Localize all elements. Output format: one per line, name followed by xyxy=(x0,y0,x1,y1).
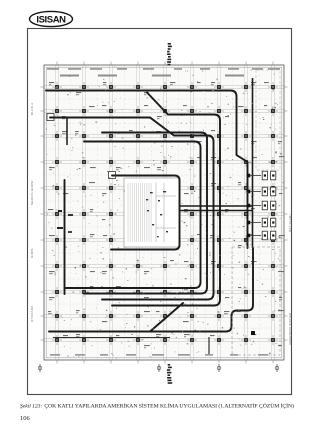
svg-text:AMERIKAN SISTEM: AMERIKAN SISTEM xyxy=(288,313,292,345)
svg-text:106: 106 xyxy=(20,415,31,422)
svg-text:BLOK A: BLOK A xyxy=(30,103,34,115)
svg-text:GIRIS: GIRIS xyxy=(30,248,34,258)
svg-text:ISISAN: ISISAN xyxy=(36,14,66,25)
svg-text:Şekil 123:ÇOK KATLI YAPILARDA: Şekil 123:ÇOK KATLI YAPILARDA AMERİKAN S… xyxy=(20,403,294,410)
svg-text:SERVIS GIRISI: SERVIS GIRISI xyxy=(30,180,34,205)
svg-text:OTOPARK: OTOPARK xyxy=(30,306,34,323)
svg-text:KAT PLANI: KAT PLANI xyxy=(288,214,292,232)
